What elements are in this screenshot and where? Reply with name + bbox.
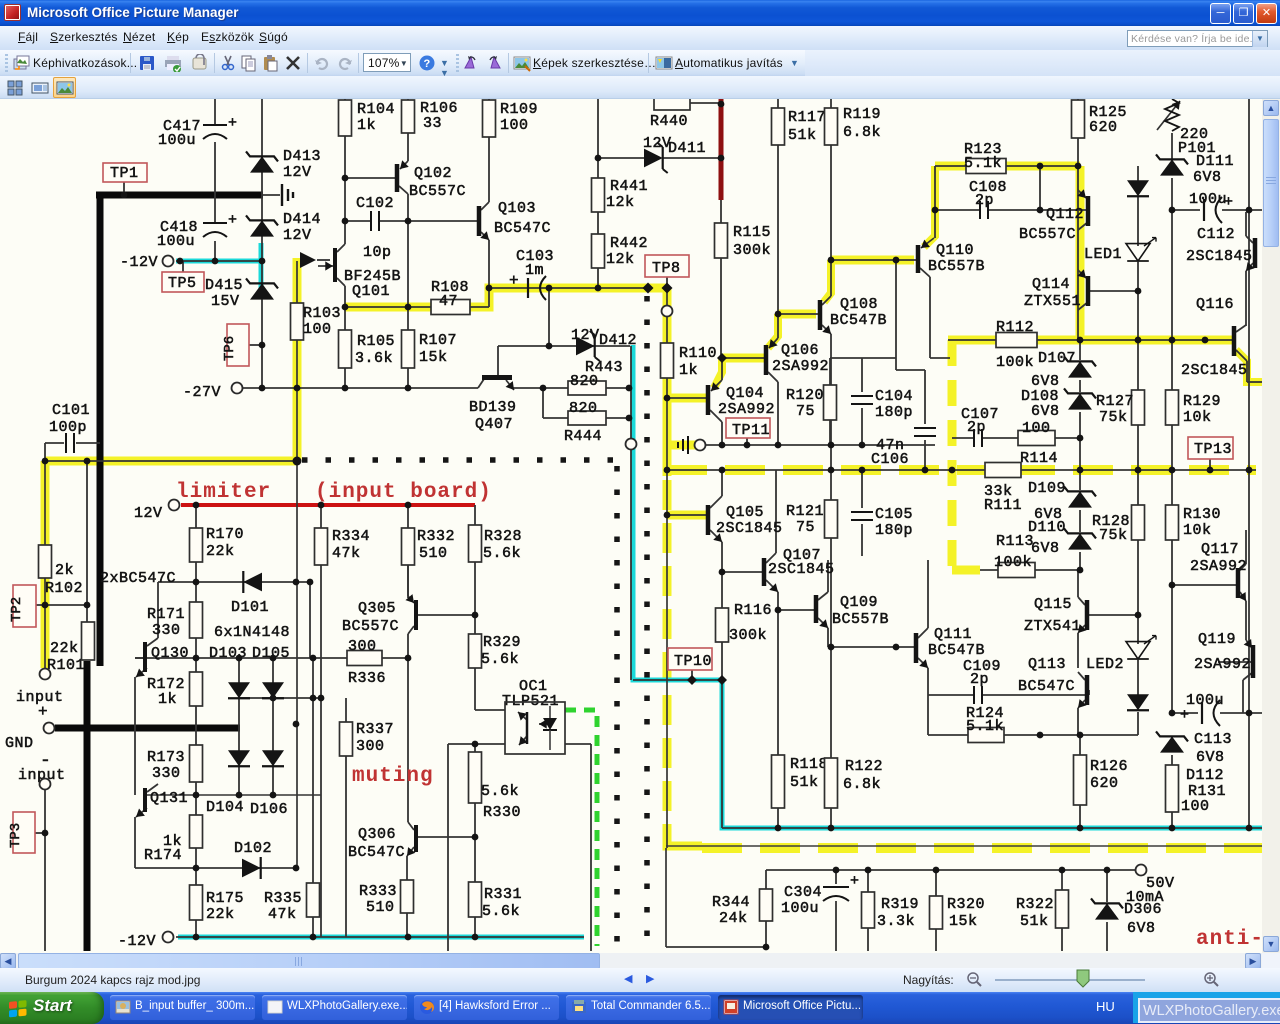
svg-text:100k: 100k: [994, 554, 1032, 571]
svg-text:LED1: LED1: [1084, 246, 1122, 263]
svg-text:Q117: Q117: [1201, 541, 1239, 558]
svg-text:C105: C105: [875, 506, 913, 523]
svg-text:100u: 100u: [157, 233, 195, 250]
svg-text:R119: R119: [843, 106, 881, 123]
svg-text:12V: 12V: [283, 164, 312, 181]
svg-text:22k: 22k: [206, 906, 235, 923]
svg-text:R173: R173: [147, 749, 185, 766]
svg-text:D111: D111: [1196, 153, 1234, 170]
svg-text:10k: 10k: [1183, 409, 1212, 426]
svg-text:180p: 180p: [875, 404, 913, 421]
svg-text:TP2: TP2: [9, 597, 25, 622]
svg-text:22k: 22k: [50, 640, 79, 657]
svg-text:10k: 10k: [1183, 522, 1212, 539]
svg-text:D412: D412: [599, 332, 637, 349]
svg-text:BC557C: BC557C: [342, 618, 399, 635]
svg-text:5.6k: 5.6k: [481, 783, 519, 800]
svg-text:TP6: TP6: [222, 336, 238, 361]
svg-text:R112: R112: [996, 319, 1034, 336]
svg-text:R322: R322: [1016, 896, 1054, 913]
svg-text:22k: 22k: [206, 543, 235, 560]
svg-text:47k: 47k: [268, 906, 297, 923]
svg-text:BC547C: BC547C: [1018, 678, 1075, 695]
svg-text:75: 75: [796, 519, 815, 536]
svg-text:+: +: [1180, 707, 1190, 724]
svg-text:BC547C: BC547C: [348, 844, 405, 861]
svg-text:?: ?: [424, 59, 431, 71]
svg-text:-12V: -12V: [118, 933, 156, 950]
svg-text:C104: C104: [875, 388, 913, 405]
svg-text:R174: R174: [144, 847, 182, 864]
svg-text:6V8: 6V8: [1031, 403, 1060, 420]
svg-text:Q116: Q116: [1196, 296, 1234, 313]
svg-text:47: 47: [439, 293, 458, 310]
svg-text:+: +: [1224, 194, 1234, 211]
svg-text:C304: C304: [784, 884, 822, 901]
svg-text:6V8: 6V8: [1193, 169, 1222, 186]
svg-text:Q113: Q113: [1028, 656, 1066, 673]
svg-text:BC557B: BC557B: [928, 258, 985, 275]
svg-text:15k: 15k: [419, 349, 448, 366]
svg-text:TP13: TP13: [1194, 441, 1232, 458]
svg-text:R114: R114: [1020, 450, 1058, 467]
svg-text:R116: R116: [734, 602, 772, 619]
svg-text:180p: 180p: [875, 522, 913, 539]
svg-text:R101: R101: [47, 657, 85, 674]
svg-text:5.6k: 5.6k: [482, 903, 520, 920]
svg-text:LED2: LED2: [1086, 656, 1124, 673]
svg-text:100p: 100p: [49, 419, 87, 436]
svg-text:R117: R117: [788, 109, 826, 126]
svg-text:12k: 12k: [606, 194, 635, 211]
svg-text:R337: R337: [356, 721, 394, 738]
svg-text:D411: D411: [668, 140, 706, 157]
svg-text:5.6k: 5.6k: [481, 651, 519, 668]
svg-text:100: 100: [1181, 798, 1210, 815]
svg-text:2SC1845: 2SC1845: [1181, 362, 1248, 379]
svg-text:100u: 100u: [158, 132, 196, 149]
svg-text:R319: R319: [881, 896, 919, 913]
svg-text:Q104: Q104: [726, 385, 764, 402]
svg-text:6V8: 6V8: [1127, 920, 1156, 937]
svg-text:Q407: Q407: [475, 416, 513, 433]
svg-text:C112: C112: [1197, 226, 1235, 243]
svg-text:1k: 1k: [158, 691, 177, 708]
svg-text:15V: 15V: [211, 293, 240, 310]
svg-text:R336: R336: [348, 670, 386, 687]
svg-text:Q110: Q110: [936, 242, 974, 259]
svg-text:33: 33: [423, 115, 442, 132]
svg-text:75k: 75k: [1099, 409, 1128, 426]
svg-text:ZTX551: ZTX551: [1024, 293, 1081, 310]
svg-text:R441: R441: [610, 178, 648, 195]
svg-text:Q112: Q112: [1046, 206, 1084, 223]
svg-text:100u: 100u: [781, 900, 819, 917]
svg-text:820: 820: [570, 373, 599, 390]
svg-text:Q305: Q305: [358, 600, 396, 617]
svg-text:12k: 12k: [606, 251, 635, 268]
svg-text:2SA992: 2SA992: [1194, 656, 1251, 673]
svg-text:R121: R121: [786, 503, 824, 520]
svg-text:BC547C: BC547C: [494, 220, 551, 237]
svg-text:D112: D112: [1186, 767, 1224, 784]
svg-text:BC557C: BC557C: [1019, 226, 1076, 243]
svg-text:R104: R104: [357, 101, 395, 118]
svg-text:2p: 2p: [970, 671, 989, 688]
svg-text:2k: 2k: [55, 562, 74, 579]
svg-text:510: 510: [366, 899, 395, 916]
svg-text:3.6k: 3.6k: [355, 350, 393, 367]
svg-text:2SC1845: 2SC1845: [716, 520, 783, 537]
svg-text:10p: 10p: [363, 244, 392, 261]
svg-text:Q130: Q130: [151, 645, 189, 662]
svg-text:12V: 12V: [134, 505, 163, 522]
svg-text:TP11: TP11: [732, 422, 770, 439]
svg-text:TP3: TP3: [8, 823, 24, 848]
svg-text:BC547B: BC547B: [830, 312, 887, 329]
svg-text:R344: R344: [712, 894, 750, 911]
svg-text:510: 510: [419, 545, 448, 562]
svg-text:R331: R331: [484, 886, 522, 903]
svg-text:+: +: [509, 272, 519, 290]
svg-text:R107: R107: [419, 332, 457, 349]
svg-text:Q114: Q114: [1032, 276, 1070, 293]
svg-text:R120: R120: [786, 387, 824, 404]
svg-text:R122: R122: [845, 758, 883, 775]
svg-text:2SC1845: 2SC1845: [1186, 248, 1253, 265]
svg-text:2SA992: 2SA992: [772, 358, 829, 375]
svg-text:820: 820: [569, 400, 598, 417]
svg-text:15k: 15k: [949, 913, 978, 930]
svg-text:R111: R111: [984, 497, 1022, 514]
svg-text:6.8k: 6.8k: [843, 776, 881, 793]
svg-text:5.1k: 5.1k: [966, 718, 1004, 735]
svg-text:51k: 51k: [788, 127, 817, 144]
svg-text:R113: R113: [996, 533, 1034, 550]
svg-text:R175: R175: [206, 890, 244, 907]
svg-text:D103: D103: [209, 645, 247, 662]
svg-text:6V8: 6V8: [1031, 540, 1060, 557]
svg-text:R330: R330: [483, 804, 521, 821]
svg-text:R118: R118: [790, 756, 828, 773]
svg-text:D413: D413: [283, 148, 321, 165]
svg-text:R130: R130: [1183, 506, 1221, 523]
svg-text:300: 300: [348, 638, 377, 655]
svg-text:GND: GND: [5, 735, 34, 752]
svg-text:1k: 1k: [679, 362, 698, 379]
svg-text:620: 620: [1090, 775, 1119, 792]
svg-text:R329: R329: [483, 634, 521, 651]
svg-text:-27V: -27V: [183, 384, 221, 401]
svg-text:R127: R127: [1096, 393, 1134, 410]
svg-text:TP5: TP5: [168, 275, 197, 292]
svg-text:5.6k: 5.6k: [483, 545, 521, 562]
svg-text:12V: 12V: [571, 327, 600, 344]
svg-text:D106: D106: [250, 801, 288, 818]
svg-text:3.3k: 3.3k: [877, 913, 915, 930]
svg-text:100: 100: [1022, 420, 1051, 437]
svg-text:24k: 24k: [719, 910, 748, 927]
svg-text:Q103: Q103: [498, 200, 536, 217]
svg-text:Q109: Q109: [840, 594, 878, 611]
svg-text:TP8: TP8: [652, 260, 681, 277]
svg-text:limiter: limiter: [176, 481, 271, 504]
svg-text:6V8: 6V8: [1196, 749, 1225, 766]
svg-text:C101: C101: [52, 402, 90, 419]
svg-text:R129: R129: [1183, 393, 1221, 410]
svg-text:1m: 1m: [525, 262, 544, 279]
svg-text:BC557C: BC557C: [409, 183, 466, 200]
svg-text:Q111: Q111: [934, 626, 972, 643]
svg-text:D414: D414: [283, 211, 321, 228]
svg-text:300k: 300k: [729, 627, 767, 644]
svg-text:TP1: TP1: [110, 165, 139, 182]
svg-text:2SA992: 2SA992: [718, 401, 775, 418]
svg-text:5.1k: 5.1k: [964, 155, 1002, 172]
svg-text:R102: R102: [45, 580, 83, 597]
svg-text:Q306: Q306: [358, 826, 396, 843]
svg-text:330: 330: [152, 622, 181, 639]
svg-text:muting: muting: [352, 765, 434, 788]
svg-text:Q108: Q108: [840, 296, 878, 313]
svg-text:R110: R110: [679, 345, 717, 362]
svg-text:12V: 12V: [283, 227, 312, 244]
svg-text:6x1N4148: 6x1N4148: [214, 624, 290, 641]
svg-text:51k: 51k: [790, 774, 819, 791]
svg-text:D415: D415: [205, 277, 243, 294]
svg-text:BC557B: BC557B: [832, 611, 889, 628]
svg-text:R109: R109: [500, 101, 538, 118]
svg-text:R440: R440: [650, 113, 688, 130]
svg-text:R103: R103: [303, 305, 341, 322]
svg-text:R444: R444: [564, 428, 602, 445]
svg-text:TP10: TP10: [674, 653, 712, 670]
svg-text:R170: R170: [206, 526, 244, 543]
svg-text:D306: D306: [1124, 901, 1162, 918]
svg-text:51k: 51k: [1020, 913, 1049, 930]
svg-text:R115: R115: [733, 224, 771, 241]
svg-text:+: +: [228, 212, 238, 229]
svg-text:100u: 100u: [1186, 692, 1224, 709]
svg-text:C106: C106: [871, 451, 909, 468]
svg-text:2xBC547C: 2xBC547C: [100, 570, 176, 587]
svg-text:75k: 75k: [1099, 527, 1128, 544]
svg-text:R328: R328: [484, 528, 522, 545]
svg-text:100: 100: [500, 117, 529, 134]
svg-text:D102: D102: [234, 840, 272, 857]
svg-text:Q119: Q119: [1198, 631, 1236, 648]
svg-text:2p: 2p: [975, 192, 994, 209]
svg-text:+: +: [38, 703, 48, 721]
svg-text:C102: C102: [356, 195, 394, 212]
svg-text:100u: 100u: [1189, 191, 1227, 208]
svg-text:-12V: -12V: [120, 254, 158, 271]
svg-text:100k: 100k: [996, 354, 1034, 371]
svg-text:D101: D101: [231, 599, 269, 616]
svg-text:R332: R332: [417, 528, 455, 545]
svg-text:Q106: Q106: [781, 342, 819, 359]
svg-text:D104: D104: [206, 799, 244, 816]
svg-text:D107: D107: [1038, 350, 1076, 367]
svg-text:R126: R126: [1090, 758, 1128, 775]
svg-text:BC547B: BC547B: [928, 642, 985, 659]
svg-text:anti-: anti-: [1196, 928, 1262, 951]
svg-text:BD139: BD139: [469, 399, 517, 416]
svg-text:D109: D109: [1028, 480, 1066, 497]
svg-text:Q115: Q115: [1034, 596, 1072, 613]
svg-text:C113: C113: [1194, 731, 1232, 748]
svg-text:2SC1845: 2SC1845: [768, 561, 835, 578]
svg-text:R334: R334: [332, 528, 370, 545]
svg-text:R171: R171: [147, 606, 185, 623]
svg-text:ZTX541: ZTX541: [1024, 618, 1081, 635]
svg-text:Q101: Q101: [352, 283, 390, 300]
svg-text:R333: R333: [359, 883, 397, 900]
svg-text:75: 75: [796, 403, 815, 420]
svg-text:6.8k: 6.8k: [843, 124, 881, 141]
svg-text:D105: D105: [252, 645, 290, 662]
svg-text:300k: 300k: [733, 242, 771, 259]
svg-text:R105: R105: [357, 333, 395, 350]
svg-text:R442: R442: [610, 235, 648, 252]
svg-text:330: 330: [152, 765, 181, 782]
svg-text:47k: 47k: [332, 545, 361, 562]
svg-text:1k: 1k: [357, 117, 376, 134]
svg-text:100: 100: [303, 321, 332, 338]
svg-text:300: 300: [356, 738, 385, 755]
svg-text:Q105: Q105: [726, 504, 764, 521]
svg-text:Q131: Q131: [150, 790, 188, 807]
svg-text:(input board): (input board): [315, 481, 492, 504]
svg-text:R320: R320: [947, 896, 985, 913]
svg-text:2p: 2p: [967, 419, 986, 436]
svg-text:R335: R335: [264, 890, 302, 907]
svg-text:+: +: [850, 873, 860, 890]
svg-text:620: 620: [1089, 119, 1118, 136]
svg-text:+: +: [228, 115, 238, 132]
svg-text:Q102: Q102: [414, 165, 452, 182]
